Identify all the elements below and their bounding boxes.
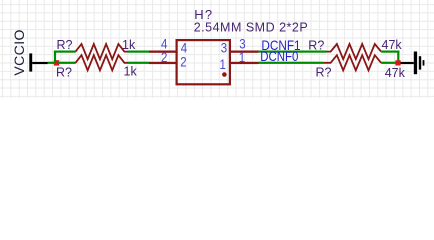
svg-text:1k: 1k [122,38,136,52]
wire top row to R1 [54,51,76,53]
resistor R4 (47k bottom) [323,55,381,70]
connector H1 pin 2 lead [149,62,176,64]
svg-text:R?: R? [56,65,72,79]
resistor R2 (1k bottom) [76,55,129,70]
svg-text:R?: R? [316,66,332,80]
svg-text:1: 1 [220,56,226,72]
svg-text:1k: 1k [124,65,138,79]
connector H1 pin 4 lead [149,51,176,53]
resistor R1 (1k top) [76,44,129,59]
svg-text:2.54MM SMD 2*2P: 2.54MM SMD 2*2P [194,21,308,35]
wire VCCIO to junction [48,62,57,64]
junction J1 [54,60,59,65]
svg-text:1: 1 [239,49,245,65]
svg-text:3: 3 [221,39,227,55]
supply symbol VCCIO [29,53,47,71]
svg-text:DCNF0: DCNF0 [260,49,298,64]
svg-text:2: 2 [161,49,167,65]
connector H1 pin 1 lead [231,62,259,64]
pin 1 marker dot [222,72,227,77]
wire net DCNF0 [259,62,324,64]
wire junction to R2 [58,62,76,64]
wire corner down [397,51,399,63]
svg-text:47k: 47k [382,38,403,52]
wire vertical branch [54,51,56,63]
wire R4 to junction [381,62,401,64]
wire net DCNF1 [259,51,327,53]
wire R2 to pin 2 [128,62,149,64]
wire R3 to corner [381,51,399,53]
svg-text:VCCIO: VCCIO [11,29,27,75]
resistor R3 (47k top) [327,44,382,59]
ground symbol [401,52,425,75]
svg-text:2: 2 [180,53,186,69]
connector H1 body [177,40,230,84]
junction J2 [395,60,400,65]
wire R1 to pin 4 [128,51,149,53]
svg-text:R?: R? [308,38,324,52]
connector H1 pin 3 lead [231,51,259,53]
svg-text:R?: R? [57,38,73,52]
svg-text:47k: 47k [385,66,406,80]
